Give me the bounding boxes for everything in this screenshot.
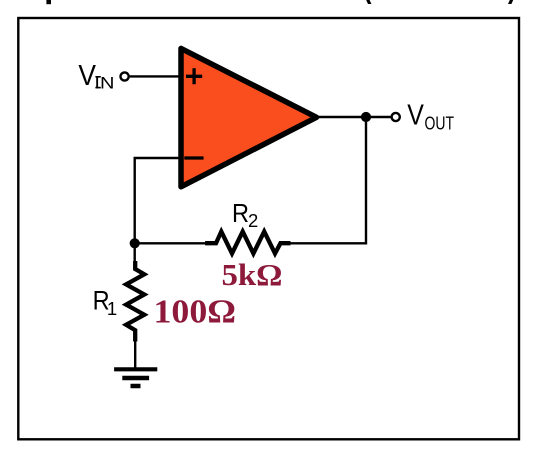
svg-text:V: V bbox=[407, 100, 424, 132]
wire R1 to ground bbox=[134, 338, 136, 368]
svg-text:2: 2 bbox=[248, 210, 258, 231]
cut-off title descender "p" bbox=[46, 0, 51, 4]
wire VIN to op-amp + input bbox=[130, 75, 181, 77]
R2 label bbox=[232, 198, 258, 231]
wire feedback vertical from output dot down bbox=[291, 117, 367, 243]
resistor R1 bbox=[126, 261, 144, 342]
wire op-amp output bbox=[314, 116, 366, 118]
minus input marker bbox=[184, 156, 203, 159]
wire feedback node down to R1 bbox=[133, 243, 135, 262]
node feedback junction dot bbox=[130, 238, 140, 248]
svg-text:100Ω: 100Ω bbox=[154, 294, 237, 331]
node output junction dot bbox=[361, 112, 371, 122]
wire junction to VOUT terminal bbox=[366, 116, 391, 118]
ground bbox=[114, 369, 157, 386]
op-amp U1 bbox=[181, 48, 317, 186]
cut-off title "(" bottom bbox=[366, 0, 371, 4]
wire from - input left then down to feedback node bbox=[135, 158, 181, 243]
svg-text:1: 1 bbox=[107, 298, 117, 319]
node VIN terminal circle bbox=[121, 72, 129, 80]
svg-text:5kΩ: 5kΩ bbox=[222, 257, 283, 292]
svg-text:R: R bbox=[232, 198, 249, 228]
wire feedback node to R2 left lead bbox=[135, 242, 206, 244]
cut-off title ")" bottom bbox=[508, 0, 513, 4]
node VIN label bbox=[78, 60, 114, 93]
node VOUT label bbox=[407, 100, 454, 134]
svg-text:OUT: OUT bbox=[425, 113, 455, 133]
resistor R2 bbox=[205, 232, 290, 254]
plus input marker bbox=[186, 68, 202, 84]
R1 label bbox=[93, 285, 118, 319]
node VOUT terminal circle bbox=[392, 113, 400, 121]
